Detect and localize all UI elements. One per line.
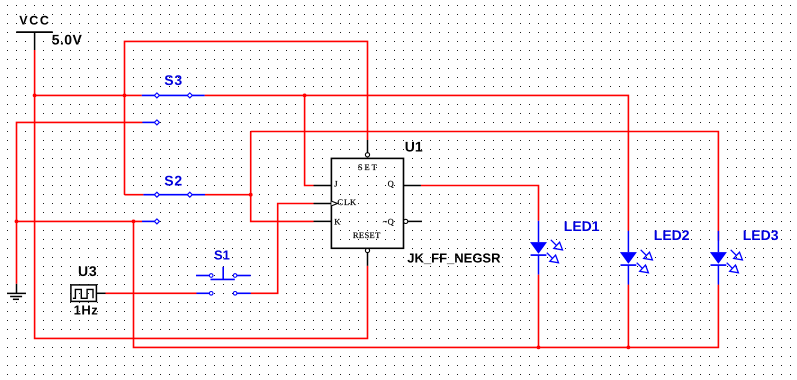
svg-text:~Q: ~Q — [383, 216, 395, 226]
svg-text:S3: S3 — [164, 72, 183, 88]
svg-text:1Hz: 1Hz — [74, 302, 99, 317]
svg-text:SET: SET — [358, 162, 379, 172]
svg-text:LED2: LED2 — [654, 227, 690, 243]
svg-text:5.0V: 5.0V — [52, 32, 83, 48]
svg-text:JK_FF_NEGSR: JK_FF_NEGSR — [407, 251, 501, 266]
svg-text:U1: U1 — [405, 139, 423, 155]
svg-text:U3: U3 — [78, 263, 98, 279]
svg-text:K: K — [334, 216, 341, 226]
svg-text:LED1: LED1 — [564, 218, 600, 234]
svg-text:RESET: RESET — [353, 230, 381, 240]
svg-text:VCC: VCC — [19, 14, 50, 28]
svg-text:S1: S1 — [214, 248, 230, 263]
svg-text:Q: Q — [388, 178, 394, 188]
svg-text:S2: S2 — [164, 172, 183, 188]
svg-text:LED3: LED3 — [743, 227, 779, 243]
svg-text:CLK: CLK — [337, 197, 357, 207]
